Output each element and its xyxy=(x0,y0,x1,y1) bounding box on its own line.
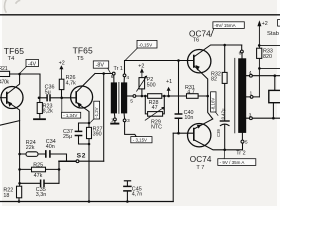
svg-text:Tr 2: Tr 2 xyxy=(236,150,245,156)
cut-off label box top right xyxy=(278,20,283,27)
terminal 1 xyxy=(246,96,259,98)
bottom rail xyxy=(0,201,173,203)
svg-text:47: 47 xyxy=(152,105,158,111)
resistor R33 xyxy=(257,48,262,58)
svg-text:40n: 40n xyxy=(46,144,55,150)
resistor R28 xyxy=(144,95,147,98)
svg-text:390: 390 xyxy=(93,131,102,137)
resistor R24 xyxy=(26,152,38,157)
svg-text:T4: T4 xyxy=(8,56,16,62)
svg-text:5: 5 xyxy=(245,140,248,146)
top border line xyxy=(0,14,280,16)
svg-text:0,47μ: 0,47μ xyxy=(220,108,225,119)
svg-text:4: 4 xyxy=(126,75,129,81)
svg-text:TF65: TF65 xyxy=(73,46,93,56)
capacitor C35 xyxy=(20,182,59,184)
label box -1,34V xyxy=(62,112,81,118)
svg-text:10n: 10n xyxy=(184,115,193,121)
terminal 5 xyxy=(241,133,243,140)
svg-text:S2: S2 xyxy=(77,152,86,159)
resistor R23 xyxy=(39,98,41,118)
wire T7 base xyxy=(173,132,194,134)
ground xyxy=(34,118,45,120)
svg-text:3,3n: 3,3n xyxy=(36,192,47,198)
svg-text:- 1,34V: - 1,34V xyxy=(63,113,77,118)
net arrow +1 xyxy=(168,91,170,96)
svg-text:+2: +2 xyxy=(138,63,144,69)
transistor T5 xyxy=(71,86,93,108)
svg-text:-4V: -4V xyxy=(28,61,37,67)
resistor R26 xyxy=(59,79,64,89)
label box -3,15V xyxy=(131,137,152,143)
vertical label box -8,16V xyxy=(211,92,216,112)
wire T5 collector xyxy=(77,74,95,92)
decorative cut-off curve top-left xyxy=(5,0,20,12)
svg-text:NTC: NTC xyxy=(151,124,162,130)
net arrow +2 (b) xyxy=(141,72,143,77)
svg-text:3: 3 xyxy=(249,112,252,118)
svg-text:25μ: 25μ xyxy=(63,134,72,140)
svg-text:8,2k: 8,2k xyxy=(43,108,53,114)
label box -0,15V xyxy=(137,40,157,48)
svg-text:4,7n: 4,7n xyxy=(132,191,143,197)
resistor R25 xyxy=(20,168,59,170)
capacitor C40 xyxy=(177,59,180,62)
svg-text:OC74: OC74 xyxy=(190,155,212,164)
svg-text:T 7: T 7 xyxy=(196,165,204,171)
svg-text:T6: T6 xyxy=(193,38,200,44)
leader -4V xyxy=(20,67,26,73)
svg-text:-1,2V: -1,2V xyxy=(94,107,99,117)
loudspeaker box xyxy=(269,90,282,102)
terminal 6 xyxy=(112,72,115,75)
wire T4 base xyxy=(0,97,7,99)
wire Tr1 terminal 3 to -3,15V label xyxy=(125,122,137,137)
svg-text:T5: T5 xyxy=(77,56,84,62)
terminal 6 xyxy=(241,45,243,50)
svg-text:- 3,15V: - 3,15V xyxy=(133,138,147,143)
potentiometer P2 xyxy=(139,78,145,89)
svg-text:-9V/ 15mA: -9V/ 15mA xyxy=(214,23,235,28)
label box -4V xyxy=(26,60,39,67)
wire T5 base xyxy=(62,97,77,99)
wire T7 emitter-out xyxy=(194,140,242,150)
capacitor C34 xyxy=(46,151,50,157)
node C35 branch xyxy=(18,182,21,185)
node emitter branch xyxy=(88,122,91,125)
resistor R21 xyxy=(0,71,10,76)
svg-text:470k: 470k xyxy=(0,79,9,85)
wire R21 to node xyxy=(10,73,40,75)
svg-text:- 9V / 35m A: - 9V / 35m A xyxy=(220,160,245,165)
svg-text:C39: C39 xyxy=(216,129,221,137)
terminal 1 + ground xyxy=(113,113,116,118)
node T4 collector xyxy=(18,73,21,76)
svg-text:500: 500 xyxy=(147,82,156,88)
resistor R22 xyxy=(18,183,21,201)
transistor T6 xyxy=(188,50,211,73)
transformer Tr1 xyxy=(111,82,117,113)
terminal 3 xyxy=(123,113,126,119)
wire collector vertical T4 xyxy=(7,74,19,94)
margins xyxy=(0,0,2,210)
wire T6 collector xyxy=(194,45,241,57)
svg-text:82: 82 xyxy=(211,77,217,83)
net arrow +2 (a) xyxy=(60,69,62,79)
wire T6 emitter xyxy=(194,66,213,129)
node junction -8V rail / S2 riser xyxy=(102,72,105,75)
label box -1,2V vertical xyxy=(94,101,100,119)
svg-text:1: 1 xyxy=(111,117,114,123)
label box -9V/35mA xyxy=(218,159,256,166)
node emitter/R24 xyxy=(18,153,21,156)
transistor T4 xyxy=(1,87,23,109)
svg-text:-8V: -8V xyxy=(96,63,105,69)
switch S2 xyxy=(59,160,76,162)
node loop right xyxy=(58,168,61,171)
+2 net with R33 xyxy=(258,67,261,70)
resistor R31 xyxy=(187,94,199,99)
wire emitter to rail xyxy=(88,144,90,202)
transformer Tr2 xyxy=(238,58,246,133)
capacitor C36 xyxy=(40,74,62,98)
node C39 bottom xyxy=(223,149,226,152)
capacitor C37 xyxy=(79,123,90,144)
thermistor R29 xyxy=(145,96,164,114)
svg-text:820: 820 xyxy=(263,54,272,60)
svg-text:5μ: 5μ xyxy=(45,89,51,95)
wire T5 emitter xyxy=(77,103,90,124)
terminal 5 xyxy=(127,95,133,97)
svg-text:+2: +2 xyxy=(262,21,268,27)
svg-text:4: 4 xyxy=(249,70,252,76)
svg-text:1: 1 xyxy=(250,90,253,96)
svg-text:6: 6 xyxy=(239,50,242,56)
capacitor C39 xyxy=(220,120,229,122)
svg-text:+1: +1 xyxy=(166,79,172,85)
svg-text:4,7: 4,7 xyxy=(187,89,195,95)
svg-text:-0,15V: -0,15V xyxy=(139,43,153,48)
svg-text:R21: R21 xyxy=(0,66,8,72)
label box -9V/15mA xyxy=(213,22,244,29)
label box -8V xyxy=(93,61,108,68)
svg-text:-8,16V: -8,16V xyxy=(211,98,216,111)
resistor R32 xyxy=(224,45,226,121)
svg-text:Stab: Stab xyxy=(267,31,279,37)
main bias wire xyxy=(136,95,208,97)
wire T7 base to rail xyxy=(172,133,174,201)
svg-text:22k: 22k xyxy=(26,145,35,151)
svg-text:5: 5 xyxy=(130,98,133,104)
wire stray diagonal to emitter xyxy=(0,121,20,126)
node R25 branch xyxy=(18,168,21,171)
svg-text:3: 3 xyxy=(127,118,130,124)
terminal 4 xyxy=(123,77,125,83)
wire T4 emitter xyxy=(7,102,20,184)
svg-text:18: 18 xyxy=(3,193,9,199)
resistor R27 xyxy=(88,123,90,144)
wire -8V to Tr1 terminal 6 xyxy=(95,73,112,75)
terminal 4 xyxy=(246,75,280,77)
terminal 3 xyxy=(246,117,280,119)
svg-text:Tr 1: Tr 1 xyxy=(114,66,123,72)
svg-text:R25: R25 xyxy=(33,162,43,168)
svg-text:6: 6 xyxy=(111,74,114,80)
svg-text:TF65: TF65 xyxy=(4,46,24,56)
capacitor C45 xyxy=(124,180,130,182)
svg-text:+2: +2 xyxy=(59,61,65,67)
svg-text:47k: 47k xyxy=(34,173,43,179)
wire Tr1-4 to T6 base xyxy=(125,61,194,75)
svg-text:4,7k: 4,7k xyxy=(66,81,76,87)
transistor T7 xyxy=(188,124,211,147)
